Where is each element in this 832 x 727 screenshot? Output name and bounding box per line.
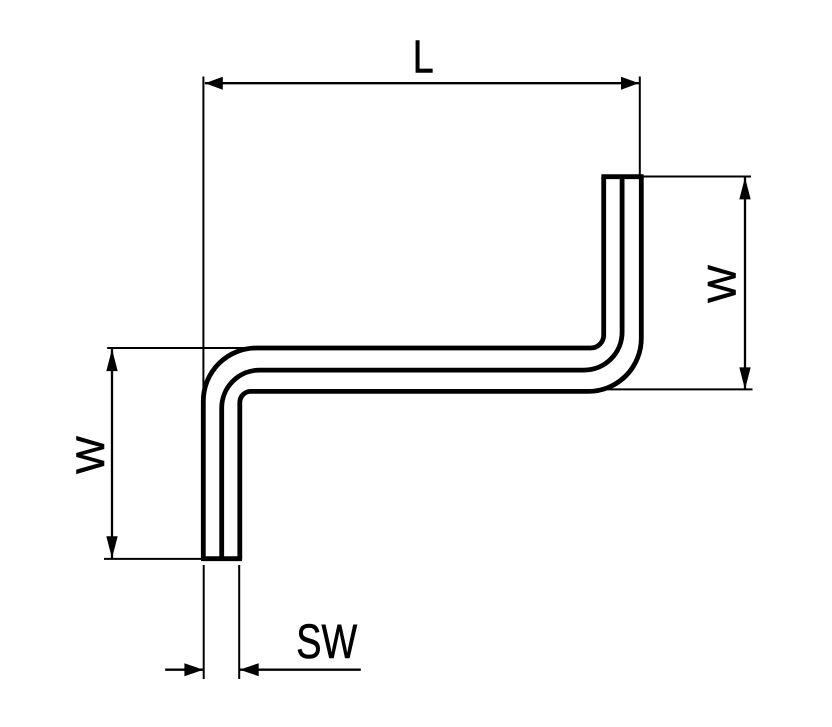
dimension L [203, 77, 639, 403]
svg-text:W: W [69, 436, 113, 474]
W right extension line bottom [600, 388, 753, 390]
W right extension line top [644, 176, 752, 178]
SW extension line left [203, 565, 205, 679]
SW arrow pointing right [184, 663, 203, 676]
hex key outer contour line (left edge of left leg, top edge of middle run, left edge of right leg) [203, 177, 603, 559]
SW dimension line left part [165, 669, 203, 671]
svg-text:W: W [700, 265, 744, 303]
SW extension line right [238, 565, 240, 679]
W right dimension line [744, 177, 746, 389]
svg-text:L: L [413, 31, 434, 83]
dimension W right [600, 177, 753, 390]
dimension W left [104, 348, 254, 559]
W left arrow up [106, 349, 117, 371]
W left extension line top [107, 347, 253, 349]
hex key inner contour line (right edge of left leg, bottom edge of middle run, right edge of right leg) [240, 177, 642, 559]
hex key middle edge line [222, 177, 622, 559]
hex key bottom end cap [201, 556, 242, 561]
L extension line right [639, 77, 641, 176]
W left dimension line [111, 349, 113, 558]
L extension line left [202, 77, 204, 403]
SW dimension line right part [240, 669, 361, 671]
hex key top end cap [601, 174, 643, 179]
W left arrow down [106, 536, 117, 558]
W right arrow down [739, 367, 750, 389]
dimension SW [165, 565, 361, 679]
SW arrow pointing left [240, 663, 259, 676]
W right arrow up [739, 177, 750, 199]
L arrow right [621, 77, 639, 90]
L arrow left [205, 77, 223, 90]
svg-text:SW: SW [296, 616, 357, 670]
L dimension line [205, 82, 639, 84]
W left extension line bottom [104, 558, 242, 560]
